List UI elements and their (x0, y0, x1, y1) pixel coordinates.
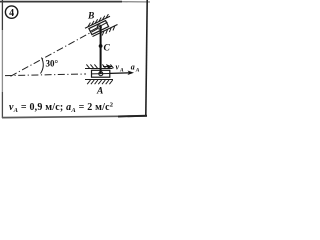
slider B body (89, 21, 109, 35)
svg-text:A: A (96, 87, 103, 97)
svg-text:C: C (104, 44, 111, 54)
velocity arrow vA (103, 65, 113, 69)
slider A body (92, 70, 110, 77)
acceleration arrow aA (110, 71, 134, 76)
svg-text:v: v (116, 62, 120, 71)
label B (87, 12, 94, 22)
label vA (116, 62, 125, 73)
svg-text:a: a (131, 62, 135, 71)
frame right border (146, 0, 147, 116)
centerline through slider A (92, 73, 111, 75)
horizontal guide upper hatching (86, 64, 113, 68)
horizontal guide lower hatching (87, 80, 113, 84)
angle label 30deg (46, 59, 59, 69)
figure number circle 4 (5, 6, 17, 19)
label C (104, 44, 111, 54)
inclined guide lower hatching (102, 26, 115, 36)
pin joint at A (99, 72, 103, 76)
centerline through slider B (90, 22, 108, 31)
rod AB (100, 27, 102, 74)
horizontal dash-dot centerline through A (5, 74, 86, 76)
inclined guide upper hatching (88, 14, 109, 27)
point C dot (99, 44, 103, 48)
svg-text:A: A (135, 67, 140, 73)
svg-text:4: 4 (9, 8, 14, 19)
svg-text:vA = 0,9 м/с; aA = 2 м/с2: vA = 0,9 м/с; aA = 2 м/с2 (9, 102, 113, 115)
frame top border (0, 1, 150, 3)
label aA (131, 62, 140, 73)
inclined guide lower rail at B (93, 25, 118, 37)
svg-text:30°: 30° (46, 59, 59, 69)
frame left border (1, 0, 3, 118)
inclined guide upper rail at B (85, 16, 110, 28)
svg-text:A: A (119, 67, 124, 73)
svg-text:B: B (87, 12, 94, 22)
pin joint at B (97, 25, 101, 29)
label A (96, 87, 103, 97)
caption: vA = 0,9 m/s; aA = 2 m/s^2 (9, 102, 113, 115)
angle arc (41, 58, 44, 74)
horizontal guide lower rail at A (85, 79, 113, 81)
horizontal guide upper rail at A (85, 68, 113, 70)
frame bottom border (2, 116, 147, 118)
inclined dash-dot centerline to B (30 deg) (11, 29, 98, 77)
